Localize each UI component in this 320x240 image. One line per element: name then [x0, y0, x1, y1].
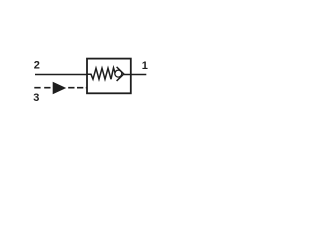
flow arrow on pilot line	[53, 82, 66, 95]
wire port 2 to valve body	[35, 74, 87, 76]
wire pilot line 3 left dashed segment	[34, 87, 52, 89]
svg-text:2: 2	[34, 59, 40, 71]
svg-text:1: 1	[142, 60, 148, 72]
svg-text:3: 3	[33, 92, 39, 104]
spring	[87, 68, 115, 79]
wire pilot line 3 right dashed segment	[68, 87, 87, 89]
check ball	[115, 70, 122, 77]
valve seat	[117, 67, 124, 81]
wire valve to port 1	[124, 74, 147, 76]
valve body V1	[87, 59, 131, 94]
